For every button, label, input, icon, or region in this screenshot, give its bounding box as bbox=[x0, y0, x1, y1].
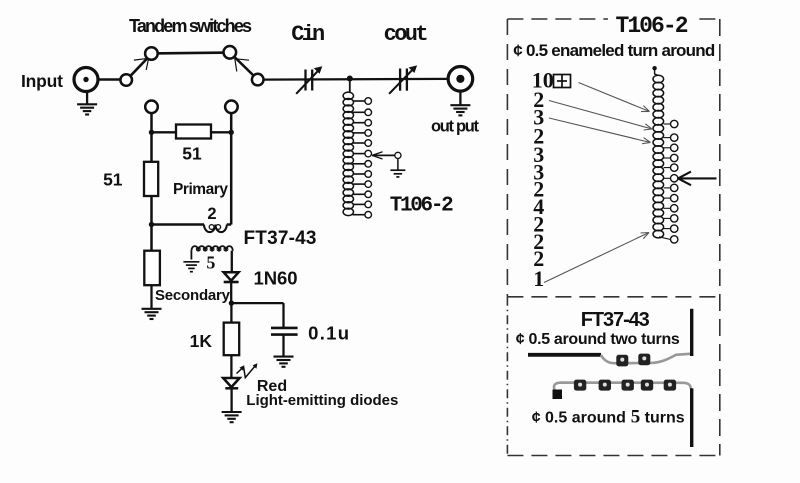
svg-text:Tandem switches: Tandem switches bbox=[129, 16, 252, 36]
svg-text:FT37-43: FT37-43 bbox=[581, 309, 650, 331]
svg-text:¢ 0.5 around two turns: ¢ 0.5 around two turns bbox=[516, 331, 680, 348]
svg-text:Primary: Primary bbox=[173, 181, 228, 198]
svg-text:Cin: Cin bbox=[291, 22, 325, 47]
svg-text:¢ 0.5 enameled turn around: ¢ 0.5 enameled turn around bbox=[513, 41, 715, 60]
svg-text:Secondary: Secondary bbox=[155, 287, 231, 304]
svg-text:1: 1 bbox=[533, 266, 544, 291]
svg-text:0.1u: 0.1u bbox=[308, 322, 349, 343]
svg-text:cout: cout bbox=[384, 22, 429, 47]
svg-text:T106-2: T106-2 bbox=[390, 195, 454, 218]
svg-text:51: 51 bbox=[182, 144, 202, 164]
svg-text:1N60: 1N60 bbox=[254, 267, 298, 288]
svg-text:FT37-43: FT37-43 bbox=[244, 228, 317, 249]
svg-text:¢ 0.5 around 5 turns: ¢ 0.5 around 5 turns bbox=[532, 407, 685, 428]
svg-text:5: 5 bbox=[206, 253, 215, 273]
svg-text:2: 2 bbox=[207, 205, 216, 223]
svg-text:out put: out put bbox=[431, 118, 480, 136]
svg-text:51: 51 bbox=[103, 170, 123, 190]
svg-text:Input: Input bbox=[21, 71, 63, 91]
svg-text:Light-emitting diodes: Light-emitting diodes bbox=[246, 392, 398, 409]
svg-text:1K: 1K bbox=[190, 331, 213, 351]
svg-text:T106-2: T106-2 bbox=[616, 13, 689, 39]
